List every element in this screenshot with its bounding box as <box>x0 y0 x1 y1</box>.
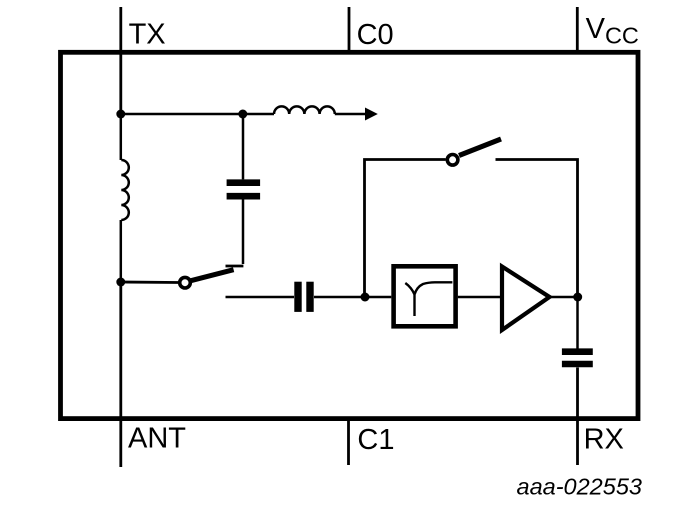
wire filter to amp <box>458 296 502 299</box>
svg-text:aaa-022553: aaa-022553 <box>517 474 642 500</box>
svg-text:C0: C0 <box>357 19 394 51</box>
capacitor C3 series <box>226 282 392 312</box>
node at C2 top <box>238 110 247 119</box>
node filter input <box>361 293 370 302</box>
pin VCC wire <box>576 7 579 53</box>
inductor L1 <box>121 114 129 282</box>
switch SW2 bypass loop <box>365 139 578 297</box>
wire TX node to C2 node <box>121 113 243 115</box>
pin C0 wire <box>348 7 351 53</box>
pin RX wire <box>576 368 579 466</box>
svg-text:RX: RX <box>584 424 624 456</box>
svg-text:ANT: ANT <box>128 423 186 455</box>
pin ANT wire <box>119 282 122 467</box>
inductor L2 with arrow <box>243 106 378 120</box>
filter U1 box <box>394 266 456 326</box>
pin C1 wire <box>347 418 350 465</box>
capacitor C4 shunt RX <box>562 297 593 364</box>
amplifier U2 <box>502 267 550 331</box>
switch SW1 <box>121 266 244 288</box>
svg-text:TX: TX <box>129 19 166 51</box>
node on TX line top <box>116 110 125 119</box>
wire amp to RX node <box>550 296 578 299</box>
svg-text:C1: C1 <box>357 424 394 456</box>
pin TX wire <box>119 7 122 114</box>
node on ANT line <box>116 278 125 287</box>
IC boundary box <box>61 52 639 418</box>
node RX <box>573 293 582 302</box>
capacitor C2 shunt <box>227 114 261 264</box>
